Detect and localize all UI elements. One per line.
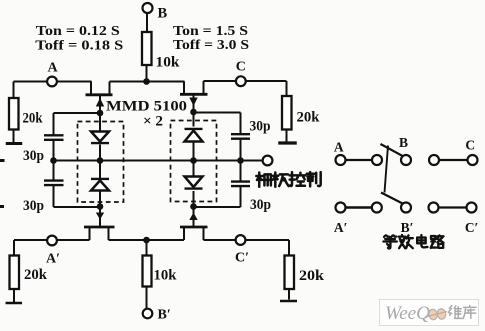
wire C1 to node [53,140,55,161]
eq wire A-prime pair [346,206,372,209]
junction right cap node [237,157,244,164]
wire C2 bottom lead [54,186,101,208]
junction left lower node [97,203,104,210]
transistor Q2 arrow [189,98,197,107]
wire A rail [14,81,92,83]
wire B node segment [110,81,185,83]
resistor R5 10k (bottom) [143,256,178,287]
svg-text:B′: B′ [401,220,414,235]
svg-text:10k: 10k [154,268,178,284]
resistor R2 20k (top left) [9,98,43,130]
eq wire C-prime pair [439,206,467,208]
svg-text:20k: 20k [23,111,44,127]
junction left cap node [50,157,57,164]
transistor Q3 gate line [99,207,101,227]
svg-text:10k: 10k [156,55,181,71]
transistor Q3 channel bar [84,226,115,229]
speck left edge mid [0,159,5,162]
ground (top left) [6,142,23,145]
wire A-prime rail [14,239,90,241]
wire C4 lead [240,161,242,182]
eq switch arm top [381,144,403,156]
eq wire C pair [439,159,468,161]
eq wire A pair [346,159,373,161]
transistor Q4 arrow [189,213,197,221]
svg-text:B: B [399,135,408,150]
terminal C [236,59,246,86]
label Toff=0.18S [35,38,123,53]
transistor Q2 source lead [203,81,205,94]
label eq C [465,138,475,153]
wire B-prime segment [109,239,185,241]
transistor Q4 gate line [193,207,195,227]
resistor R3 20k (top right) [282,96,320,130]
wire B to R1 [146,13,148,33]
terminal A [47,61,58,87]
junction node B2 [143,237,150,244]
diode D1 (left upper) [91,132,109,144]
svg-text:B′: B′ [158,308,171,323]
wire R6 to ground [288,289,290,300]
svg-text:Toff = 3.0 S: Toff = 3.0 S [173,38,249,53]
wire C2 lead [53,161,55,181]
capacitor C4 30p [231,182,250,187]
speck left edge lower [0,205,4,208]
eq switch arm bottom [381,193,402,204]
capacitor C2 30p [44,181,64,186]
svg-text:A: A [47,61,58,76]
diode D4 (right lower) [185,177,203,189]
svg-text:C: C [465,138,475,153]
wire R3 to ground [286,130,288,142]
svg-text:Ton = 1.5 S: Ton = 1.5 S [173,24,248,39]
svg-text:× 2: × 2 [143,114,163,130]
svg-text:Ton = 0.12 S: Ton = 0.12 S [36,24,120,39]
label eq C-prime [465,220,479,235]
svg-text:B: B [158,6,168,22]
wire gate line right vertical [193,112,195,207]
svg-text:WeeQ: WeeQ [385,303,430,324]
ground (bottom right) [280,300,297,303]
transistor Q2 channel bar [180,93,208,96]
label C3 30p [250,119,271,135]
transistor Q1 channel bar [86,93,113,96]
label C4 30p [250,197,271,213]
label MMD5100 [106,99,187,115]
wire C rail [204,80,287,82]
transistor Q3 drain lead [89,228,91,241]
wire C1 top lead [54,113,101,135]
resistor R6 20k (bottom right) [285,256,326,290]
dashed box left (protection) [78,122,124,203]
capacitor C1 30p [44,135,64,140]
label equivalent circuit (Chinese) [383,235,443,248]
label Ton=1.5S [173,24,248,39]
junction Q2 gate node [190,109,197,116]
ground (bottom left) [6,302,23,304]
transistor Q4 channel bar [180,226,208,229]
transistor Q3 source lead [108,228,110,241]
svg-text:Toff = 0.18 S: Toff = 0.18 S [35,38,123,53]
wire R5 to B-prime [146,287,148,309]
eq contact B [401,155,411,165]
label Toff=3.0S [173,38,249,53]
svg-text:30p: 30p [250,197,271,213]
wire gate line left vertical [99,113,101,207]
svg-text:A′: A′ [46,252,60,267]
label x2 [143,114,163,130]
label eq A-prime [334,220,348,235]
wire C-prime to R6 [288,240,290,256]
svg-text:30p: 30p [23,148,44,164]
capacitor C3 30p [231,134,250,139]
eq contact C2 [468,155,478,165]
dashed box right (protection) [171,121,217,202]
watermark WeeQoo box [380,300,479,326]
terminal C-prime [235,235,249,265]
terminal B-prime [143,308,171,323]
wire B2 to R5 [146,240,148,256]
eq contact A2-prime [372,203,382,213]
svg-text:20k: 20k [297,110,321,126]
svg-text:C′: C′ [465,220,479,235]
diode D2 (left lower) [91,179,109,191]
svg-text:30p: 30p [250,119,271,135]
junction right lower node [190,203,197,210]
label C2 30p [23,198,44,214]
wire C3 top lead [194,113,241,134]
transistor Q2 gate line [193,95,195,112]
wire C to R3 [286,81,288,96]
wire A to R2 [13,82,15,99]
svg-text:30p: 30p [23,198,44,214]
svg-text:20k: 20k [24,267,48,283]
svg-text:A′: A′ [334,220,348,235]
eq contact A2 [372,155,382,165]
wire R2 to ground [13,130,15,143]
label C1 30p [23,148,44,164]
eq switch link [385,146,389,193]
terminal A-prime [46,236,60,267]
transistor Q4 drain lead [183,228,185,241]
transistor Q1 gate line [99,96,101,114]
diode D3 (right upper) [185,129,203,142]
junction left middle node [97,157,104,164]
eq contact C1 [429,155,439,165]
eq contact C2-prime [467,203,477,213]
resistor R1 10k (top) [142,32,180,71]
svg-text:MMD 5100: MMD 5100 [106,99,187,115]
eq contact A1 [336,155,346,165]
label Ton=0.12S [36,24,120,39]
resistor R4 20k (bottom left) [10,256,48,290]
svg-text:C: C [236,59,246,74]
svg-text:C′: C′ [235,251,249,266]
wire C-prime rail [204,239,290,241]
transistor Q1 arrow [96,98,104,107]
label eq B-prime [401,220,414,235]
terminal B [143,3,168,22]
junction node B1 [143,78,150,85]
wire A-prime to R4 [13,240,15,256]
junction right middle node [190,157,197,164]
svg-text:20k: 20k [299,268,325,284]
transistor Q1 source lead [109,82,111,95]
eq contact C1-prime [429,203,439,213]
label eq B [399,135,408,150]
wire C3 to node [240,139,242,161]
terminal gate control [263,156,273,166]
label gate control (Chinese) [256,172,320,187]
transistor Q4 source lead [203,228,205,241]
transistor Q3 arrow [96,213,104,220]
wire R4 to ground [13,289,15,302]
eq contact B-prime [401,203,411,213]
wire C4 bottom lead [194,187,241,208]
transistor Q1 drain lead [90,82,92,95]
eq contact A1-prime [336,203,346,213]
wire R1 to node B1 [146,65,148,82]
label eq A [334,140,344,155]
junction Q1 gate node [97,110,104,117]
ground (top right) [278,141,297,144]
wire gate control row [54,160,263,162]
transistor Q2 drain lead [183,82,185,94]
svg-text:A: A [334,140,344,155]
